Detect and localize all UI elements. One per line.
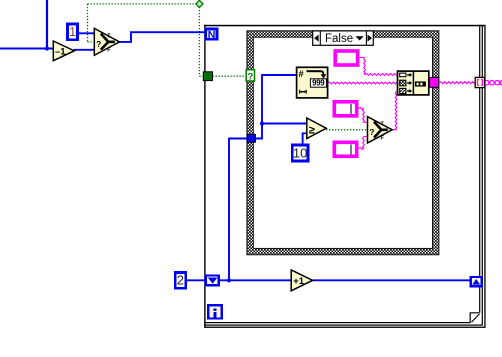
svg-text:#: #	[298, 69, 304, 80]
svg-text:–1: –1	[55, 47, 66, 58]
svg-text:2: 2	[177, 273, 184, 288]
svg-text:1: 1	[69, 24, 76, 39]
svg-text:+1: +1	[293, 276, 305, 287]
svg-text:10: 10	[293, 145, 307, 160]
svg-text:999: 999	[312, 79, 325, 88]
svg-text:N: N	[208, 29, 216, 41]
svg-text:?: ?	[96, 39, 101, 49]
svg-text:≥: ≥	[309, 124, 315, 136]
svg-text:False: False	[325, 33, 353, 45]
svg-text:?: ?	[369, 127, 374, 137]
svg-text:?: ?	[247, 71, 253, 82]
